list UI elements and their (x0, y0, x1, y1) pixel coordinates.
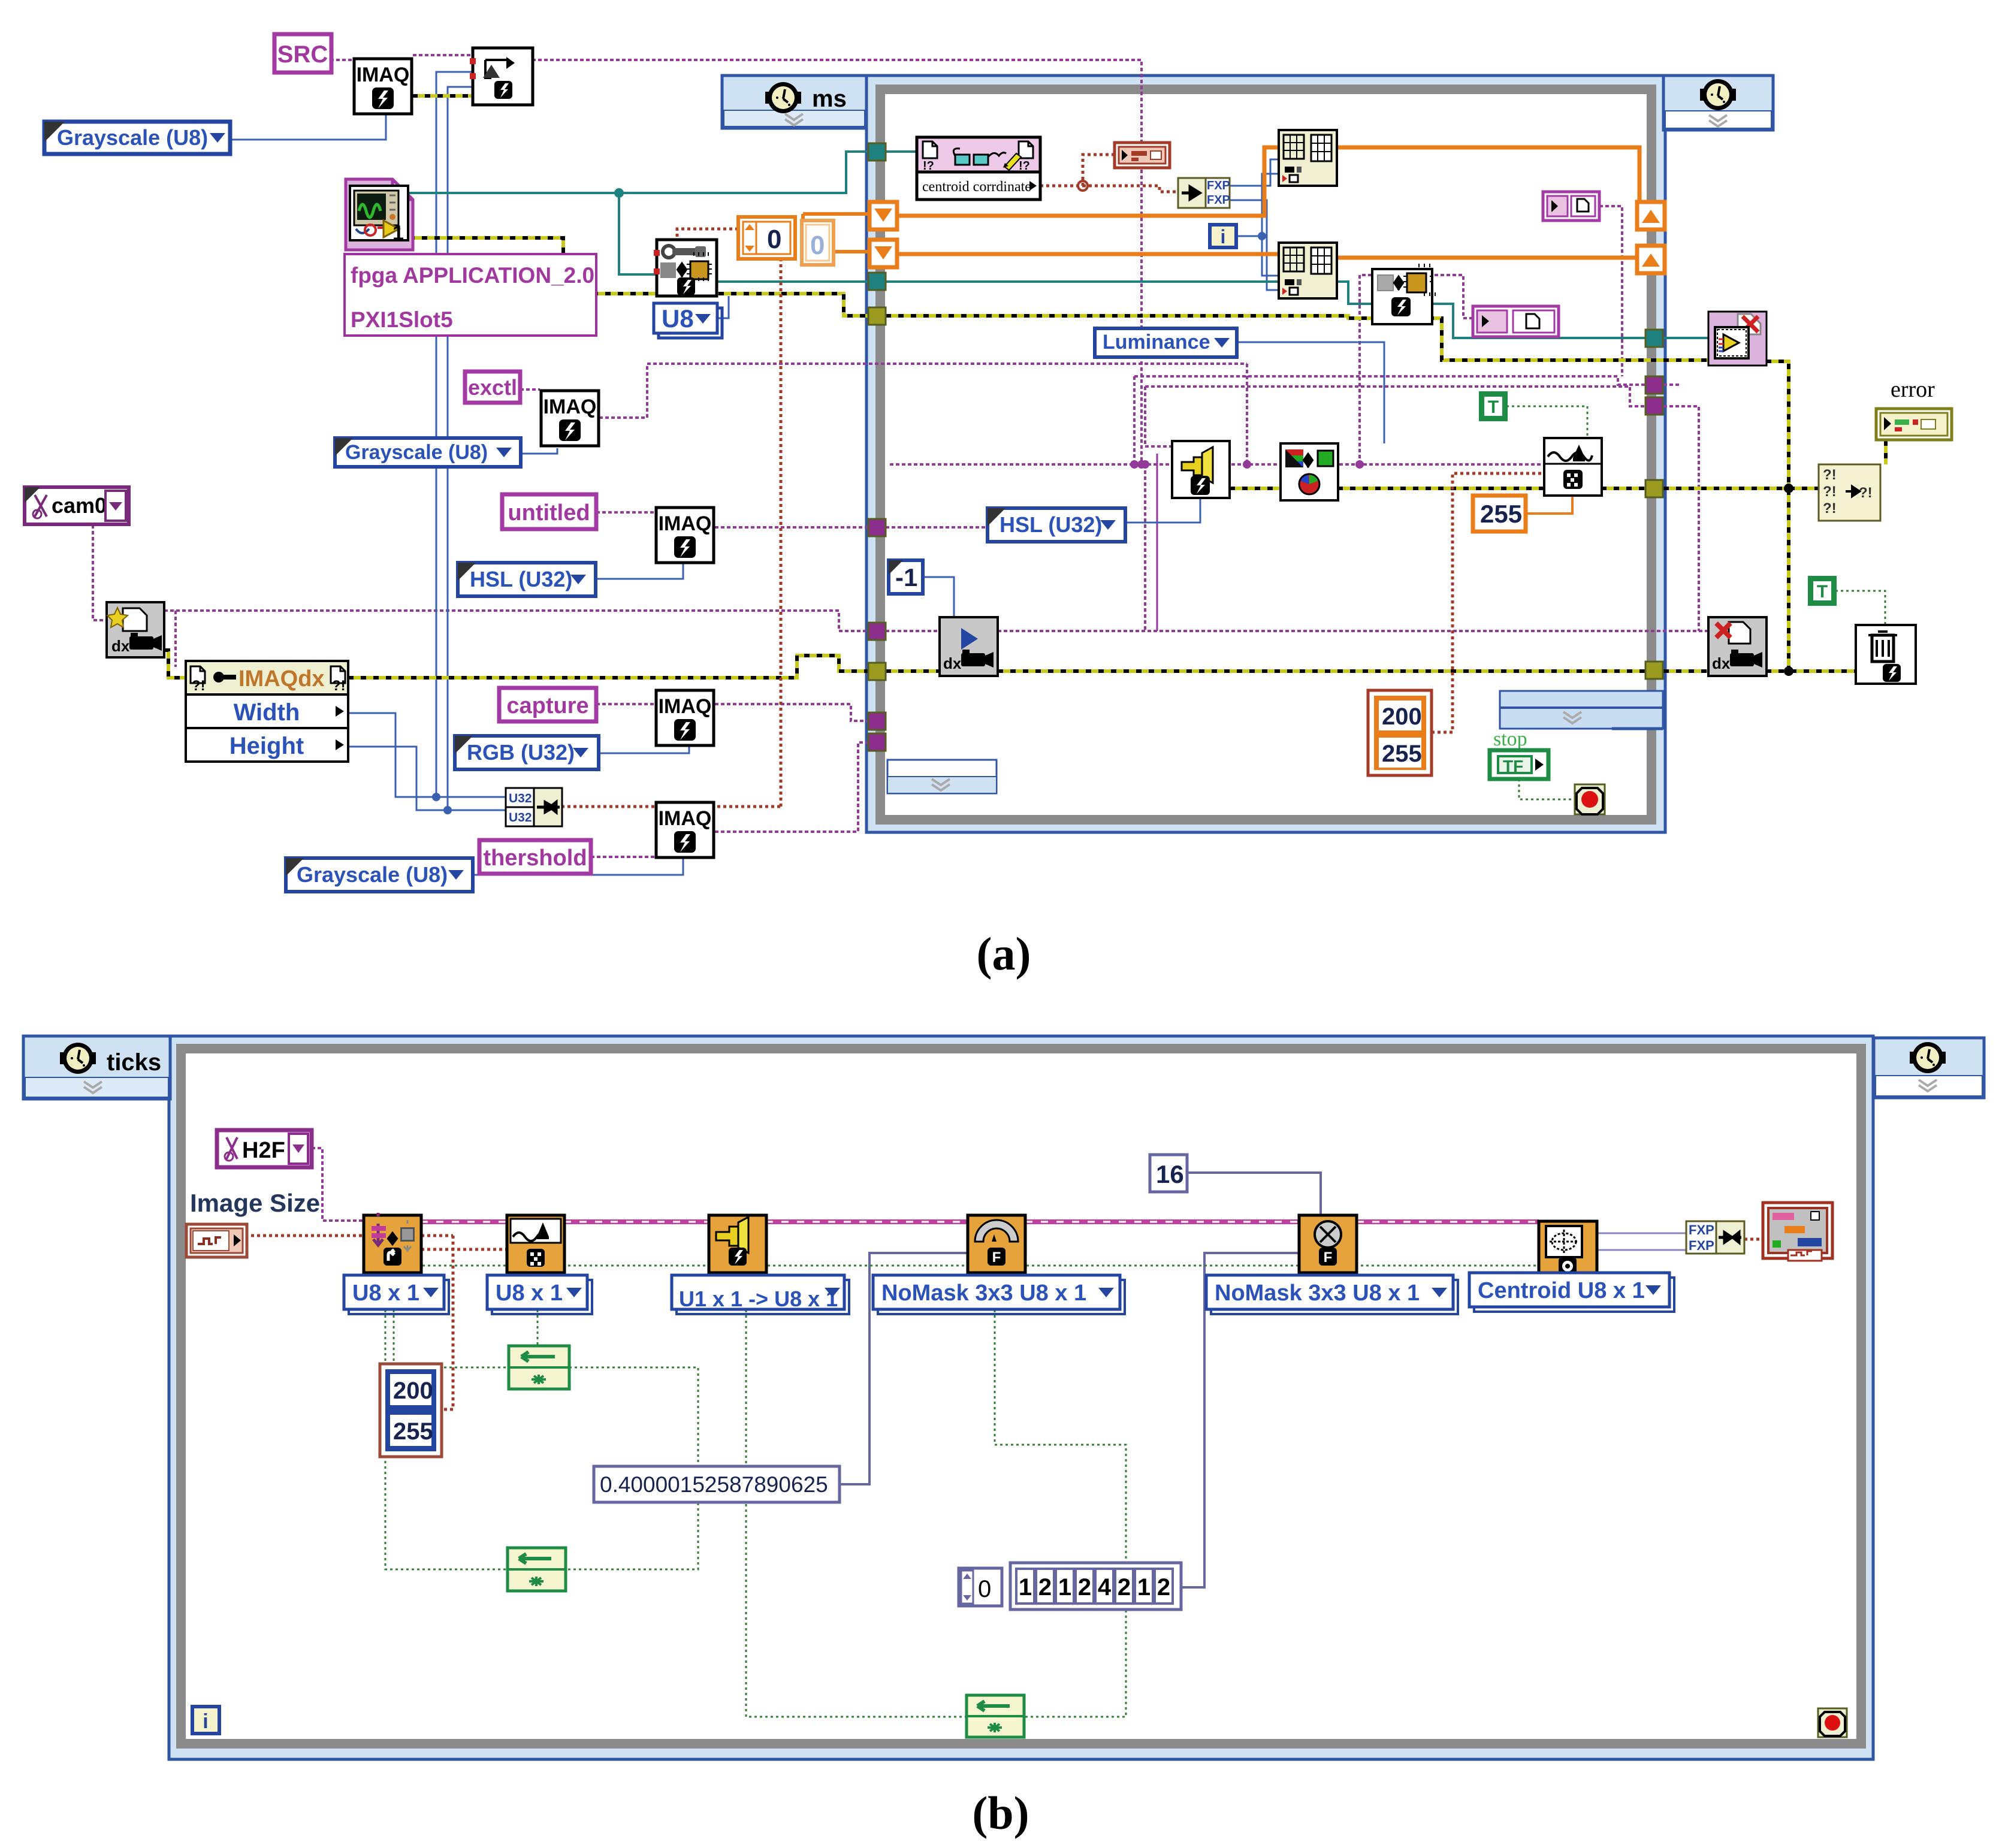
svg-text:IMAQdx: IMAQdx (238, 666, 325, 692)
wire purple untitled label (596, 511, 655, 514)
label exctl (465, 372, 520, 403)
wire purple cam0 down (93, 525, 107, 620)
indicator image D1 (1543, 192, 1599, 221)
wire green enable chain (395, 1265, 1539, 1267)
const 0 spinner (738, 217, 795, 259)
svg-text:2: 2 (1118, 1574, 1131, 1601)
svg-text:i: i (203, 1710, 208, 1733)
svg-text:NoMask 3x3 U8 x 1: NoMask 3x3 U8 x 1 (881, 1281, 1086, 1306)
const 0.40000152587890625 (594, 1466, 840, 1502)
svg-text:?!: ?! (332, 678, 346, 694)
tunnel orange down 2 (869, 240, 897, 267)
svg-text:U8 x 1: U8 x 1 (352, 1281, 419, 1306)
svg-text:?!: ?! (1823, 484, 1837, 500)
svg-text:200: 200 (393, 1378, 433, 1404)
wire blue luminance2 (1237, 342, 1384, 443)
node build matrix A (1279, 130, 1337, 186)
wire purple H2F (312, 1148, 363, 1221)
node IMAQ create 2 (541, 391, 599, 446)
wire orange loop run1 (896, 147, 1279, 216)
wire purple IMAQ4 to tunnel (715, 704, 868, 721)
node fpga multiply (b5) (1299, 1215, 1357, 1273)
node feedback 2 (508, 1548, 566, 1591)
svg-text:0: 0 (810, 231, 825, 260)
tunnel purple right 2 (1645, 397, 1663, 415)
node olive junctions (1784, 484, 1793, 676)
svg-text:stop: stop (1493, 728, 1527, 750)
wire purple thershold label (591, 856, 655, 858)
wire green combo1 (394, 1310, 509, 1367)
wire error yellow right (1663, 361, 1886, 671)
tunnel purple right 1 (1645, 376, 1663, 394)
wire blue width (348, 713, 506, 797)
svg-text:F: F (992, 1249, 1001, 1266)
node unbundle property top (470, 48, 533, 105)
node threshold histogram (1544, 438, 1602, 496)
wire magenta image run (b) (421, 1219, 1539, 1224)
wire purple solid vertical (1157, 454, 1158, 631)
svg-text:ms: ms (812, 86, 847, 112)
wire fxp brown centroid out (1040, 155, 1178, 192)
const -1 (889, 560, 923, 594)
svg-text:exctl: exctl (468, 375, 517, 400)
wire purple right tunnel 1 (1360, 275, 1699, 631)
node IMAQ dispose (1856, 625, 1916, 684)
indicator image D2 (1473, 306, 1559, 337)
wire teal wrench out (714, 282, 1708, 338)
label thershold (479, 840, 591, 874)
wire blue fxp out1 (1229, 159, 1279, 186)
svg-text:untitled: untitled (508, 500, 590, 526)
node cast image icon (1372, 264, 1435, 324)
wire green node1 out (566, 1367, 698, 1569)
svg-text:16: 16 (1156, 1160, 1184, 1188)
const 16 (1150, 1155, 1187, 1192)
wire brown icon1 to icon2 (421, 1236, 507, 1409)
combo Grayscale (U8) 2 (335, 438, 521, 467)
node feedback 1 (509, 1346, 569, 1389)
svg-text:SRC: SRC (277, 41, 328, 68)
tunnel olive right 2 (1645, 662, 1663, 679)
wire purple grab to close (998, 630, 1708, 632)
tunnel orange up 1 (1637, 202, 1665, 230)
svg-text:-1: -1 (895, 563, 917, 591)
timed while loop (b) outer frame (169, 1036, 1873, 1759)
wire orange zero consts (803, 214, 869, 252)
svg-text:T: T (1488, 397, 1499, 417)
tunnel purple 5 (868, 623, 886, 640)
combo U8 x 1 b (487, 1275, 592, 1314)
wire orange 255 (1525, 497, 1572, 514)
svg-text:F: F (1324, 1249, 1333, 1266)
svg-text:2: 2 (1157, 1574, 1170, 1601)
combo U1 x 1 to U8 x 1 (672, 1275, 849, 1314)
svg-text:capture: capture (506, 693, 588, 718)
combo Luminance (1095, 328, 1237, 357)
svg-text:PXI1Slot5: PXI1Slot5 (351, 307, 453, 332)
svg-text:U1 x 1 -> U8 x 1: U1 x 1 -> U8 x 1 (679, 1287, 838, 1311)
wire image yellow loop top run (886, 316, 1708, 488)
node IMAQ create 3 (656, 508, 714, 563)
wire image yellow IMAQ1 out (412, 94, 473, 98)
wire lavender centroid out (1597, 1233, 1686, 1250)
svg-text:0: 0 (767, 225, 781, 254)
svg-text:i: i (1221, 226, 1226, 247)
svg-text:RGB (U32): RGB (U32) (467, 740, 575, 765)
node IMAQdx grab (940, 617, 998, 676)
wire blue grayscale1 to IMAQ1 (230, 115, 386, 140)
tunnel orange up 2 (1637, 246, 1665, 273)
wire blue rgb (599, 745, 689, 753)
combo U8 x 1 a (344, 1275, 449, 1314)
tunnel purple 8 (868, 733, 886, 751)
wire blue iteration (1236, 174, 1279, 276)
node fpga application box (345, 254, 596, 336)
svg-text:U8: U8 (662, 304, 694, 333)
tunnel olive 3 (868, 307, 886, 325)
svg-text:?!: ?! (1859, 485, 1873, 501)
tunnel purple 7 (868, 712, 886, 730)
label capture (499, 688, 596, 721)
wire brown 200255 to hist (1432, 473, 1544, 732)
control stop TF (1490, 728, 1548, 779)
svg-text:1: 1 (392, 222, 404, 244)
indicator fxp red (1115, 143, 1170, 168)
node teal junction (614, 188, 624, 198)
terminal iteration i (1210, 225, 1236, 247)
svg-text:error: error (1891, 377, 1935, 402)
node IMAQdx open camera (107, 602, 164, 657)
node fpga extract (b3) (709, 1215, 766, 1273)
wire blue grayscale2 (520, 448, 557, 454)
node fpga reference icon (346, 179, 413, 250)
svg-text:Grayscale (U8): Grayscale (U8) (345, 441, 488, 464)
terminal iteration i (b) (192, 1707, 219, 1734)
right timing node (b) (1874, 1038, 1984, 1098)
wire orange matrixB out (1337, 256, 1637, 260)
right timing node (a) (1663, 76, 1773, 130)
node fxp join (b) (1686, 1221, 1744, 1254)
tunnel orange down 1 (869, 202, 897, 230)
svg-text:cam0: cam0 (52, 493, 107, 518)
wire blue hsl2 (1125, 498, 1200, 523)
wire image yellow fpga out (409, 238, 868, 316)
ms timing node (a) (722, 76, 866, 128)
svg-text:Grayscale (U8): Grayscale (U8) (297, 862, 448, 887)
combo Grayscale (U8) 1 (44, 122, 230, 154)
wire blue hsl1 (596, 564, 683, 579)
svg-text:!?: !? (1019, 159, 1030, 173)
wire orange loop run2 (896, 252, 1279, 256)
svg-text:4: 4 (1098, 1574, 1112, 1601)
wire purple right tunnel 2 (1663, 384, 1681, 386)
wire teal branch to wrench (619, 193, 657, 274)
tunnel olive right 1 (1645, 480, 1663, 497)
wire green combo3 (746, 1310, 967, 1717)
node stop button (b) (1818, 1708, 1847, 1737)
combo Grayscale (U8) 3 (286, 858, 473, 892)
node fpga centroid (b6) (1539, 1221, 1597, 1279)
svg-text:Grayscale (U8): Grayscale (U8) (57, 125, 208, 150)
indicator front panel cluster (1763, 1203, 1832, 1261)
wire blue fxp out2 (1229, 200, 1279, 290)
svg-text:Width: Width (234, 699, 300, 726)
node loop timing selector (1500, 691, 1663, 729)
wire purple image main run to loop (520, 60, 1645, 631)
combo RGB (U32) (455, 736, 599, 769)
node merge errors (1819, 464, 1880, 521)
svg-text:?!: ?! (1823, 500, 1837, 517)
const T green 1 (1480, 392, 1506, 420)
wire green stop (1519, 779, 1575, 799)
combo U8 (654, 303, 722, 338)
svg-text:T: T (1817, 582, 1828, 602)
node blue junctions (432, 232, 1266, 814)
const array index 0 (959, 1568, 1002, 1606)
wire purple dx open long (164, 611, 868, 667)
wire brown size to zero (561, 229, 781, 807)
svg-text:dx: dx (111, 637, 130, 655)
wire purple grab session (886, 630, 940, 632)
wire purple SRC to IMAQ create (330, 59, 355, 61)
wire green combo2 (537, 1310, 539, 1346)
wire slate 0.4 const (840, 1253, 968, 1484)
svg-text:1: 1 (1137, 1574, 1151, 1601)
svg-text:1: 1 (1019, 1574, 1032, 1601)
combo NoMask 3x3 U8 x 1 a (873, 1275, 1125, 1314)
wire green T const (1506, 406, 1587, 438)
node to fxp convert (1178, 178, 1230, 208)
wire green T const 2 (1835, 591, 1885, 625)
wire blue vertical pair (436, 72, 473, 810)
node join numbers (506, 788, 562, 826)
const 200 255 stack (b) (380, 1364, 442, 1457)
svg-text:255: 255 (393, 1418, 433, 1445)
svg-text:U32: U32 (509, 811, 532, 825)
wire brown image size (245, 1234, 363, 1237)
node extract color plane (1172, 441, 1230, 498)
svg-text:?!: ?! (192, 678, 206, 694)
combo NoMask 3x3 U8 x 1 b (1206, 1275, 1458, 1314)
wire slate 16 const (1187, 1173, 1321, 1215)
const kernel array 12124212 (1010, 1563, 1181, 1610)
node IMAQ create 1 (354, 59, 412, 114)
node IMAQ create 5 (656, 802, 714, 857)
svg-text:(b): (b) (972, 1787, 1029, 1839)
node IMAQdx close camera (1708, 617, 1767, 676)
node fpga convolution gauge (b4) (968, 1215, 1025, 1273)
tunnel olive 6 (868, 663, 886, 680)
svg-text:dx: dx (1712, 654, 1731, 672)
wire brown fxp join out (1744, 1238, 1763, 1241)
ticks timing node (b) (23, 1036, 170, 1099)
svg-text:0.40000152587890625: 0.40000152587890625 (600, 1472, 828, 1497)
svg-text:Centroid U8 x 1: Centroid U8 x 1 (1478, 1278, 1645, 1303)
svg-text:Height: Height (230, 733, 304, 759)
wire blue minus1 (922, 577, 954, 617)
wire green combo1b (385, 1310, 508, 1569)
node feedback 3 (967, 1695, 1024, 1737)
combo Centroid U8 x 1 (1469, 1273, 1674, 1312)
wire slate kernel array (1181, 1253, 1299, 1587)
wire image yellow imaqdx out (348, 656, 868, 678)
svg-text:thershold: thershold (483, 846, 587, 871)
indicator error out (1876, 409, 1952, 440)
svg-text:HSL (U32): HSL (U32) (1000, 512, 1102, 537)
wire purple IMAQ create to property node (413, 54, 473, 56)
label untitled (502, 494, 596, 529)
wire orange matrixA out (1337, 147, 1639, 202)
wire purple capture label (596, 703, 655, 705)
svg-text:fpga APPLICATION_2.0: fpga APPLICATION_2.0 (351, 263, 594, 288)
control H2F (217, 1130, 312, 1167)
svg-text:dx: dx (943, 654, 962, 672)
svg-text:2: 2 (1078, 1574, 1091, 1601)
wire purple exctl label (520, 388, 540, 391)
node fpga threshold (b2) (507, 1215, 564, 1273)
node build matrix B (1279, 243, 1337, 298)
svg-text:NoMask 3x3 U8 x 1: NoMask 3x3 U8 x 1 (1215, 1281, 1420, 1306)
tunnel teal right (1645, 330, 1663, 347)
const 200 255 stack (a) (1368, 690, 1432, 775)
wire image yellow bottom run (886, 669, 1856, 673)
svg-text:H2F: H2F (242, 1138, 285, 1163)
svg-text:centroid corrdinate: centroid corrdinate (922, 179, 1031, 195)
tunnel purple 4 (868, 519, 886, 536)
svg-text:FXP: FXP (1689, 1222, 1714, 1237)
wire blue grayscale3 (473, 859, 683, 875)
svg-text:ticks: ticks (107, 1049, 161, 1076)
svg-text:HSL (U32): HSL (U32) (470, 567, 572, 591)
svg-text:255: 255 (1382, 741, 1422, 767)
svg-text:TF: TF (1503, 757, 1523, 775)
wire teal fpga ref (409, 152, 917, 193)
wire purple IMAQ5 to tunnel (715, 742, 868, 832)
node stop button (1575, 784, 1605, 814)
svg-text:200: 200 (1382, 703, 1422, 730)
svg-text:?!: ?! (1823, 467, 1837, 483)
const 255 (1473, 496, 1526, 532)
control cam0 (25, 487, 129, 524)
wire green combo4 (995, 1310, 1126, 1717)
node fpga cast (b1) (364, 1213, 421, 1273)
svg-text:2: 2 (1038, 1574, 1052, 1601)
svg-text:FXP: FXP (1207, 179, 1230, 192)
svg-text:FXP: FXP (1689, 1238, 1714, 1253)
node IMAQdx property node (186, 661, 348, 762)
svg-text:Image Size: Image Size (190, 1189, 320, 1217)
svg-text:U32: U32 (509, 792, 532, 805)
while loop (a) outer timed frame (866, 76, 1665, 832)
label SRC (274, 34, 331, 73)
node configure fpga vi (654, 240, 717, 296)
svg-text:(a): (a) (977, 928, 1031, 980)
tunnel teal 1 (868, 143, 886, 161)
svg-text:255: 255 (1480, 500, 1522, 528)
svg-text:1: 1 (1058, 1574, 1071, 1601)
node express report icon (1708, 312, 1767, 366)
const 0 faded (802, 221, 834, 265)
wire purple IMAQ3 to tunnel (715, 526, 988, 529)
svg-text:Luminance: Luminance (1103, 331, 1210, 354)
combo HSL (U32) 2 (988, 508, 1125, 542)
wire blue height (348, 747, 506, 810)
svg-text:!?: !? (923, 159, 934, 173)
tunnel teal 2 (868, 273, 886, 290)
wire blue u8 (717, 296, 729, 318)
wire image yellow dxopen (164, 650, 186, 678)
const T green 2 (1809, 577, 1835, 605)
svg-text:U8 x 1: U8 x 1 (496, 1281, 563, 1306)
svg-text:0: 0 (978, 1576, 991, 1602)
node left data selector (887, 760, 997, 793)
node color to grayscale convert (1281, 443, 1338, 500)
combo HSL (U32) 1 (458, 563, 596, 596)
node IMAQ create 4 (656, 690, 714, 745)
indicator image size fxp (186, 1224, 247, 1257)
svg-text:FXP: FXP (1207, 194, 1230, 207)
node centroid coordinate express vi (917, 137, 1040, 200)
